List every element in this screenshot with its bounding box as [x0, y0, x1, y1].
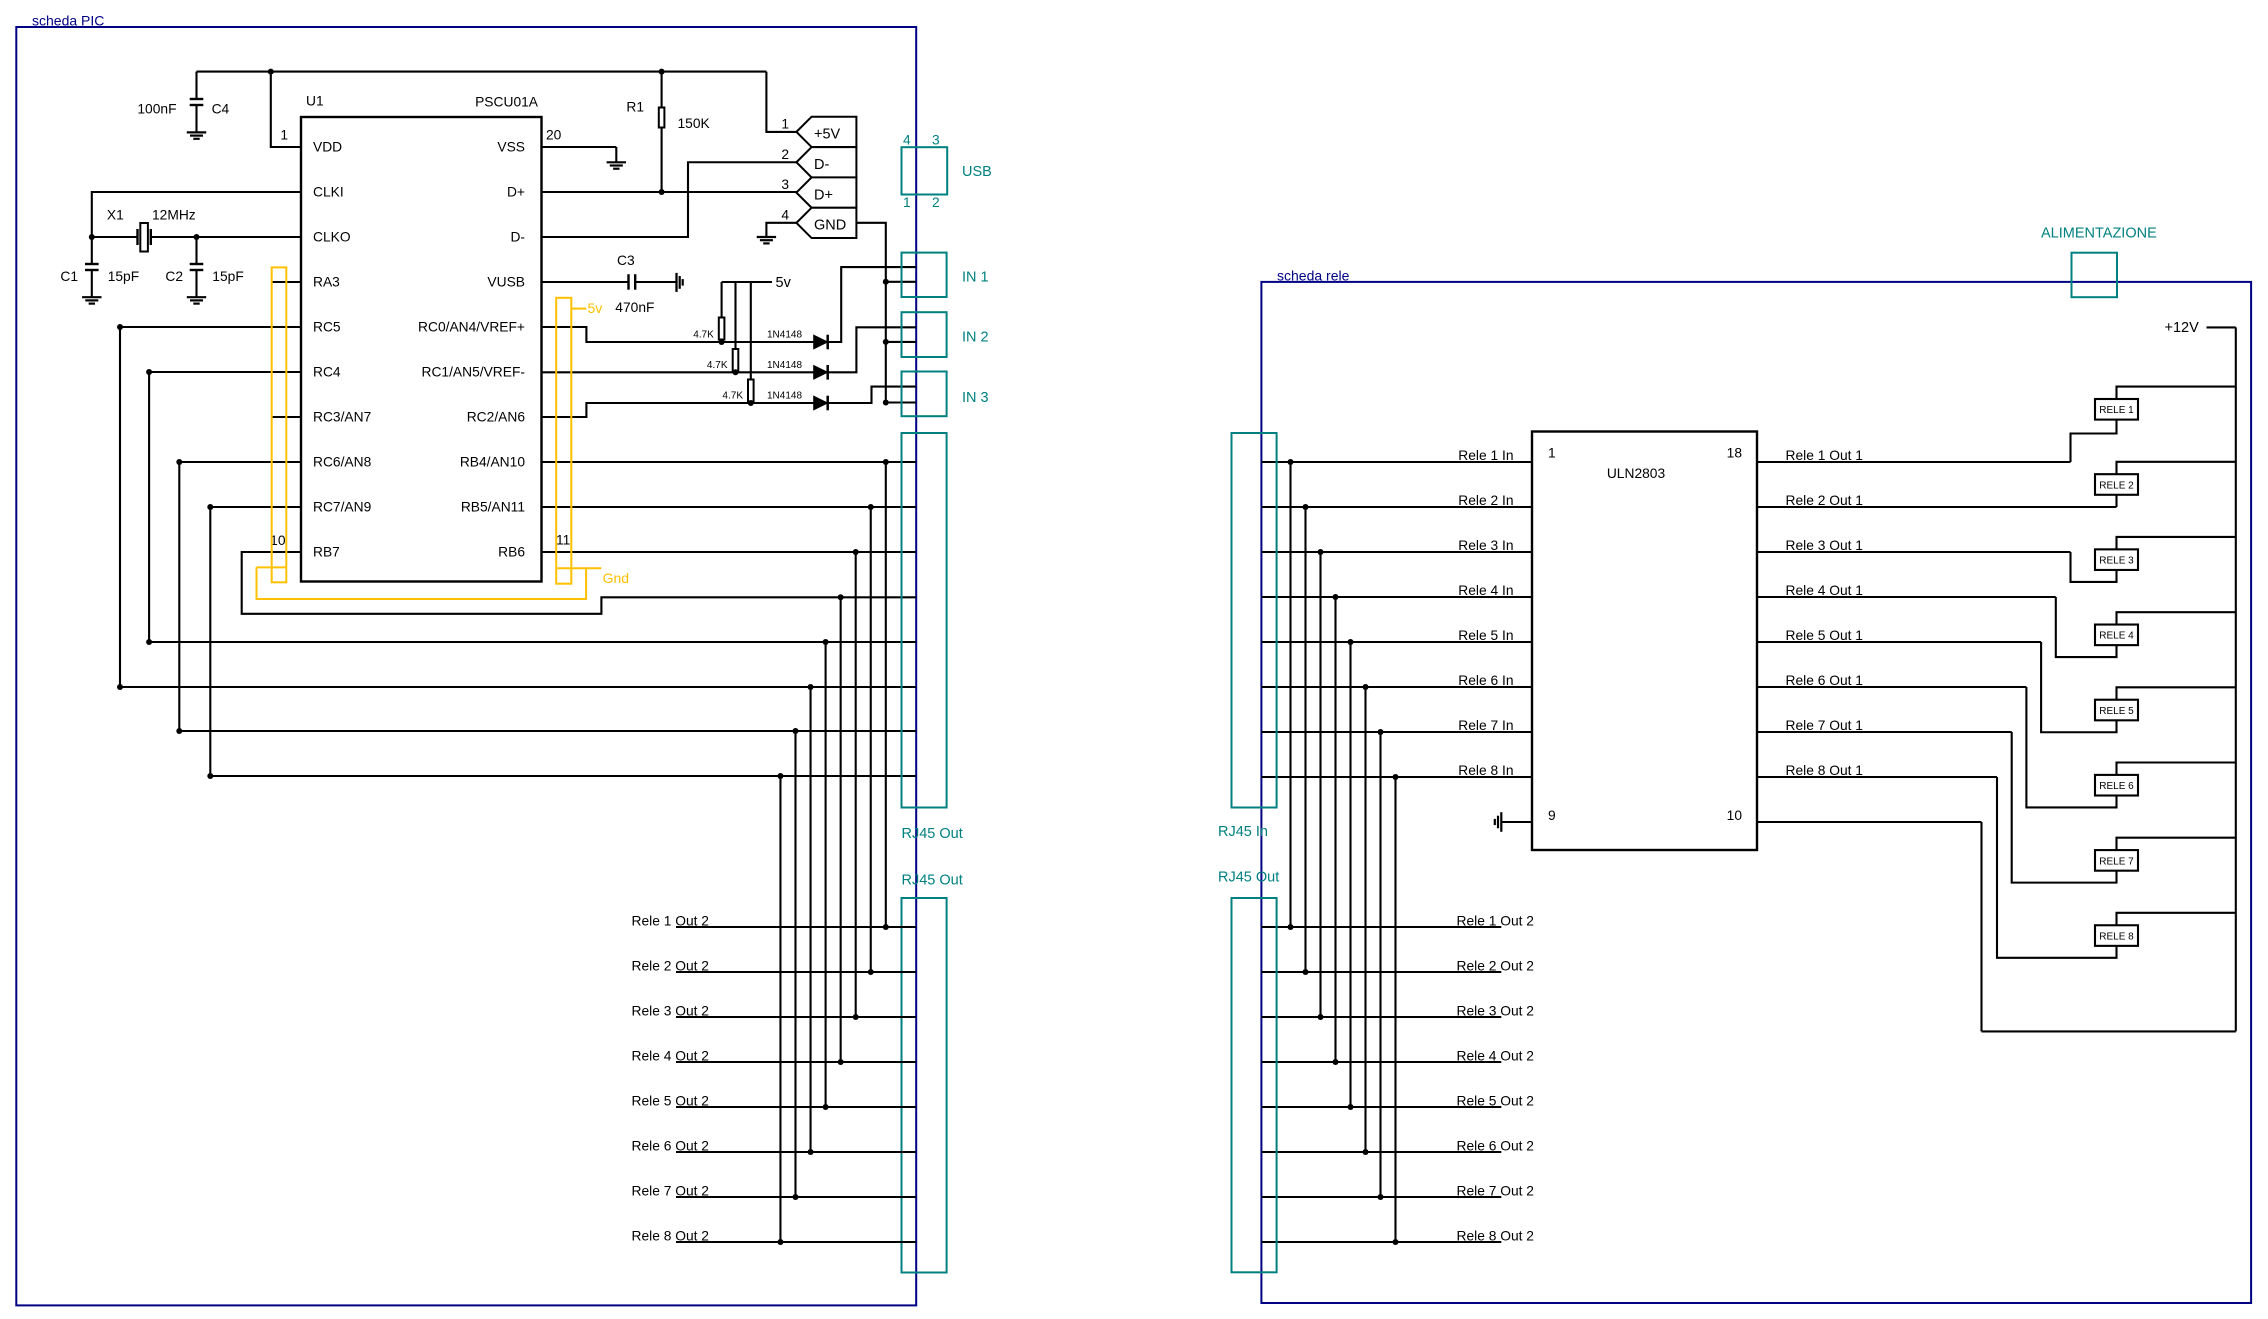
wire Rele 7 In [1261, 731, 1532, 733]
svg-text:1: 1 [280, 128, 288, 143]
wire Rele 8 In [1261, 776, 1532, 778]
IC ULN2803 body [1532, 432, 1757, 851]
svg-text:USB: USB [962, 164, 992, 180]
wire RB4 [542, 461, 917, 463]
ground ULN pin9 [1500, 812, 1502, 832]
wire pin10 riser [1980, 822, 1982, 1031]
wire Rele 6 Out 2 (left) [676, 1151, 916, 1153]
svg-text:RELE 1: RELE 1 [2099, 405, 2134, 416]
resistor 4.7K #3 [750, 282, 752, 380]
svg-text:1: 1 [1548, 446, 1556, 461]
svg-text:Rele 1 Out 2: Rele 1 Out 2 [1457, 914, 1534, 929]
svg-text:ALIMENTAZIONE: ALIMENTAZIONE [2041, 226, 2157, 242]
wire Rele 8 Out 1 [1757, 776, 1997, 778]
svg-text:R1: R1 [626, 100, 644, 115]
wire Rele 2 Out 2 (left) [676, 971, 916, 973]
net RC7 [207, 504, 213, 510]
wire drop net 8 to Rele 8 Out 2 [777, 773, 783, 779]
relay RELE 7 [2095, 850, 2138, 871]
junction GND IN1 [883, 279, 889, 285]
wire drop Rele 6 (right sheet) [1364, 687, 1366, 1152]
wire drop net 2 to Rele 2 Out 2 [868, 504, 874, 510]
wire RELE 1 coil to +12V [2117, 387, 2236, 399]
svg-text:Rele 3 Out 2: Rele 3 Out 2 [632, 1004, 709, 1019]
connector RJ45 Out lower [902, 898, 947, 1273]
svg-text:RB7: RB7 [313, 545, 340, 560]
svg-text:12MHz: 12MHz [152, 208, 196, 223]
svg-text:Rele 4 Out 1: Rele 4 Out 1 [1786, 583, 1863, 598]
relay RELE 8 [2095, 925, 2138, 946]
wire ULN pin 9 [1502, 821, 1533, 823]
wire VUSB [542, 281, 629, 283]
svg-text:RC3/AN7: RC3/AN7 [313, 410, 371, 425]
svg-text:RC2/AN6: RC2/AN6 [467, 410, 526, 425]
svg-text:C2: C2 [165, 269, 183, 284]
wire RELE 6 to out row [2026, 687, 2116, 807]
svg-text:Rele 7 Out 2: Rele 7 Out 2 [632, 1184, 709, 1199]
net RC2 to diode3 [542, 403, 814, 417]
wire drop Rele 8 (right sheet) [1394, 777, 1396, 1242]
svg-text:RB4/AN10: RB4/AN10 [460, 455, 526, 470]
wire RELE 2 to out row [2115, 495, 2117, 507]
wire Rele 8 Out 2 (left) [676, 1241, 916, 1243]
svg-text:RJ45 Out: RJ45 Out [902, 873, 963, 889]
svg-text:4.7K: 4.7K [693, 330, 714, 341]
relay RELE 2 [2095, 474, 2138, 495]
crystal X1 [136, 229, 138, 245]
wire Rele 5 Out 2 (left) [676, 1106, 916, 1108]
wire Rele 2 In [1261, 506, 1532, 508]
wire ULN pin 10 [1757, 821, 1982, 823]
svg-text:Rele 3 Out 2: Rele 3 Out 2 [1457, 1004, 1534, 1019]
svg-text:Rele 7 In: Rele 7 In [1458, 718, 1513, 733]
wire flag2 D- [542, 162, 797, 237]
svg-text:Rele 5 Out 1: Rele 5 Out 1 [1786, 628, 1863, 643]
svg-text:RELE 3: RELE 3 [2099, 556, 2134, 567]
svg-text:Rele 2 Out 2: Rele 2 Out 2 [1457, 959, 1534, 974]
svg-text:D-: D- [814, 157, 829, 173]
svg-text:15pF: 15pF [212, 269, 243, 284]
svg-text:Rele 5 In: Rele 5 In [1458, 628, 1513, 643]
wire Rele 3 Out 1 [1757, 551, 2071, 553]
wire IN2 pin2 [886, 341, 916, 343]
svg-text:15pF: 15pF [108, 269, 139, 284]
svg-text:RJ45 In: RJ45 In [1218, 824, 1268, 840]
relay RELE 4 [2095, 625, 2138, 646]
wire Rele 4 In [1261, 596, 1532, 598]
wire Rele 5 Out 2 (right) [1261, 1106, 1501, 1108]
yellow 5v stub [571, 308, 586, 310]
relay RELE 5 [2095, 700, 2138, 721]
svg-text:Rele 4 In: Rele 4 In [1458, 583, 1513, 598]
connector USB [902, 147, 948, 194]
junction X1 right [194, 234, 200, 240]
relay RELE 1 [2095, 399, 2138, 420]
wire drop Rele 3 (right sheet) [1319, 552, 1321, 1017]
wire RELE 7 coil to +12V [2117, 838, 2236, 850]
svg-text:D+: D+ [507, 185, 525, 200]
svg-text:Rele 5 Out 2: Rele 5 Out 2 [1457, 1094, 1534, 1109]
junction R-D row1 [719, 339, 725, 345]
junction R1 bottom on D+ [659, 189, 665, 195]
wire RB6 [542, 551, 917, 553]
connector RJ45 Out upper [902, 433, 947, 808]
svg-text:IN 2: IN 2 [962, 330, 989, 346]
svg-text:Rele 4 Out 2: Rele 4 Out 2 [1457, 1049, 1534, 1064]
wire Rele 1 Out 2 (right) [1261, 926, 1501, 928]
svg-text:C3: C3 [617, 253, 635, 268]
relay RELE 6 [2095, 775, 2138, 796]
svg-text:GND: GND [814, 218, 846, 234]
ground stub C3 right [675, 273, 677, 292]
junction Rele 3 In drop [1318, 549, 1324, 555]
resistor R1 [661, 72, 663, 108]
svg-text:IN 3: IN 3 [962, 390, 989, 406]
connector RJ45 Out (right) [1232, 898, 1277, 1272]
svg-text:1: 1 [903, 195, 911, 210]
wire RELE 2 coil to +12V [2117, 462, 2236, 474]
svg-text:4.7K: 4.7K [722, 391, 743, 402]
wire CLKI [92, 192, 301, 237]
wire drop net 3 to Rele 3 Out 2 [853, 549, 859, 555]
wire CLKO [197, 236, 302, 238]
ground GND flag [757, 236, 776, 238]
junction R1 top [659, 69, 665, 75]
svg-text:150K: 150K [678, 116, 711, 131]
wire Rele 4 Out 2 (left) [676, 1061, 916, 1063]
svg-text:Rele 3 Out 1: Rele 3 Out 1 [1786, 538, 1863, 553]
junction X1 left [89, 234, 95, 240]
svg-text:Rele 8 Out 2: Rele 8 Out 2 [1457, 1229, 1534, 1244]
svg-text:Rele 7 Out 2: Rele 7 Out 2 [1457, 1184, 1534, 1199]
svg-text:RC7/AN9: RC7/AN9 [313, 500, 372, 515]
net RC4 [146, 369, 152, 375]
wire Rele 6 Out 1 [1757, 686, 2026, 688]
svg-text:IN 1: IN 1 [962, 270, 989, 286]
wire RA3 stub [272, 281, 301, 283]
net RC6 [176, 459, 182, 465]
svg-text:1N4148: 1N4148 [767, 391, 802, 402]
svg-text:RELE 2: RELE 2 [2099, 480, 2134, 491]
wire RELE 8 coil to +12V [2117, 913, 2236, 925]
capacitor C2 [195, 237, 197, 263]
wire drop net 7 to Rele 7 Out 2 [793, 728, 799, 734]
svg-text:RC6/AN8: RC6/AN8 [313, 455, 372, 470]
svg-text:Gnd: Gnd [603, 570, 629, 586]
connector IN 2 [902, 312, 947, 357]
svg-text:Rele 7 Out 1: Rele 7 Out 1 [1786, 718, 1863, 733]
svg-text:RELE 6: RELE 6 [2099, 781, 2134, 792]
junction R-D row3 [748, 400, 754, 406]
diode D3 1N4148 [814, 396, 828, 410]
wire diode1 out [828, 267, 916, 342]
wire drop Rele 2 (right sheet) [1304, 507, 1306, 972]
sheet scheda rele border [1261, 282, 2251, 1303]
svg-text:18: 18 [1727, 446, 1743, 461]
junction R-D row2 [733, 369, 739, 375]
svg-text:470nF: 470nF [615, 300, 654, 315]
svg-text:Rele 4 Out 2: Rele 4 Out 2 [632, 1049, 709, 1064]
junction Rele 2 In drop [1303, 504, 1309, 510]
wire diode3 out [828, 387, 916, 403]
svg-text:CLKI: CLKI [313, 185, 344, 200]
wire +5V top rail [197, 71, 767, 73]
wire RELE 3 to out row [2071, 552, 2117, 582]
svg-text:Rele 8 In: Rele 8 In [1458, 763, 1513, 778]
svg-text:PSCU01A: PSCU01A [475, 95, 539, 110]
wire RELE 5 coil to +12V [2117, 687, 2236, 699]
svg-text:Rele 1 Out 2: Rele 1 Out 2 [632, 914, 709, 929]
relay RELE 3 [2095, 549, 2138, 570]
capacitor C3 [627, 274, 629, 290]
svg-text:D-: D- [510, 230, 525, 245]
svg-text:100nF: 100nF [137, 102, 176, 117]
wire flag4 GND left [766, 223, 796, 237]
wire Rele 2 Out 1 [1757, 506, 2117, 508]
connector ALIMENTAZIONE [2072, 253, 2118, 298]
wire Rele 6 In [1261, 686, 1532, 688]
resistor 4.7K #2 [734, 282, 736, 349]
junction GND IN2 [883, 339, 889, 345]
svg-text:9: 9 [1548, 808, 1556, 823]
resistor 4.7K #1 [721, 282, 723, 318]
svg-text:20: 20 [546, 128, 562, 143]
wire RELE 6 coil to +12V [2117, 763, 2236, 775]
capacitor C4 [195, 72, 197, 98]
wire RELE 4 coil to +12V [2117, 612, 2236, 624]
wire Rele 4 Out 1 [1757, 596, 2056, 598]
junction Rele 6 In drop [1363, 684, 1369, 690]
svg-text:RC1/AN5/VREF-: RC1/AN5/VREF- [422, 365, 526, 380]
svg-text:Rele 2 In: Rele 2 In [1458, 493, 1513, 508]
svg-text:VDD: VDD [313, 140, 342, 155]
svg-text:10: 10 [1727, 808, 1743, 823]
wire Rele 7 Out 1 [1757, 731, 2012, 733]
highlight connector right (yellow) [556, 298, 571, 584]
svg-text:Rele 6 Out 1: Rele 6 Out 1 [1786, 673, 1863, 688]
svg-text:VSS: VSS [497, 140, 525, 155]
wire flag1 +5V [766, 72, 796, 132]
wire X1 right [151, 236, 197, 238]
wire drop Rele 5 (right sheet) [1349, 642, 1351, 1107]
wire VSS to ground [542, 146, 617, 148]
connector IN 1 [902, 253, 947, 297]
junction Rele 8 In drop [1393, 774, 1399, 780]
svg-text:U1: U1 [306, 94, 324, 109]
wire +12V rail [2235, 327, 2237, 1031]
IC U1 PSCU01A body [301, 117, 542, 582]
wire RELE 5 to out row [2041, 642, 2116, 732]
wire Rele 5 Out 1 [1757, 641, 2041, 643]
svg-text:1N4148: 1N4148 [767, 330, 802, 341]
diode D2 1N4148 [814, 366, 828, 380]
wire Rele 7 Out 2 (right) [1261, 1196, 1501, 1198]
connector IN 3 [902, 372, 947, 417]
wire Rele 8 Out 2 (right) [1261, 1241, 1501, 1243]
svg-text:2: 2 [932, 195, 940, 210]
svg-text:RA3: RA3 [313, 275, 340, 290]
svg-text:RELE 7: RELE 7 [2099, 856, 2134, 867]
svg-text:RELE 8: RELE 8 [2099, 931, 2134, 942]
svg-text:RJ45 Out: RJ45 Out [1218, 870, 1279, 886]
wire Rele 3 In [1261, 551, 1532, 553]
svg-text:3: 3 [932, 133, 940, 148]
wire drop Rele 7 (right sheet) [1379, 732, 1381, 1197]
net GND to IN pins [856, 223, 916, 403]
USB pin flags +5V D- D+ GND [796, 117, 856, 147]
junction Rele 7 In drop [1378, 729, 1384, 735]
svg-text:ULN2803: ULN2803 [1607, 466, 1666, 481]
svg-text:Rele 6 Out 2: Rele 6 Out 2 [1457, 1139, 1534, 1154]
svg-text:5v: 5v [776, 275, 792, 291]
net RC5 [117, 324, 123, 330]
svg-text:C1: C1 [60, 269, 78, 284]
connector RJ45 In (right) [1232, 433, 1277, 808]
wire Rele 1 Out 1 [1757, 461, 2071, 463]
wire drop net 4 to Rele 4 Out 2 [838, 594, 844, 600]
svg-text:RC4: RC4 [313, 365, 341, 380]
ground VSS [607, 161, 626, 163]
svg-text:RB5/AN11: RB5/AN11 [461, 500, 525, 515]
junction Rele 1 In drop [1288, 459, 1294, 465]
svg-text:11: 11 [556, 533, 570, 548]
svg-text:Rele 8 Out 1: Rele 8 Out 1 [1786, 763, 1863, 778]
svg-text:Rele 1 In: Rele 1 In [1458, 448, 1513, 463]
wire RELE 1 to out row [2071, 420, 2117, 462]
svg-text:2: 2 [781, 147, 789, 162]
wire Rele 7 Out 2 (left) [676, 1196, 916, 1198]
svg-text:1: 1 [781, 117, 789, 132]
svg-text:Rele 6 In: Rele 6 In [1458, 673, 1513, 688]
svg-text:RELE 5: RELE 5 [2099, 706, 2134, 717]
wire drop Rele 1 (right sheet) [1289, 462, 1291, 927]
junction Rele 5 In drop [1348, 639, 1354, 645]
junction GND IN3 [883, 400, 889, 406]
wire X1 left [92, 236, 138, 238]
wire Rele 1 In [1261, 461, 1532, 463]
capacitor C1 [91, 237, 93, 263]
svg-text:RB6: RB6 [498, 545, 525, 560]
wire diode2 out [828, 327, 916, 372]
wire Rele 1 Out 2 (left) [676, 926, 916, 928]
highlight connector left (yellow) [272, 267, 287, 582]
wire +12V bottom [1982, 1030, 2236, 1032]
svg-text:1N4148: 1N4148 [767, 360, 802, 371]
wire Rele 3 Out 2 (left) [676, 1016, 916, 1018]
svg-text:Rele 8 Out 2: Rele 8 Out 2 [632, 1229, 709, 1244]
svg-text:X1: X1 [107, 208, 124, 223]
svg-text:Rele 3 In: Rele 3 In [1458, 538, 1513, 553]
svg-text:+12V: +12V [2165, 320, 2200, 336]
diode D1 1N4148 [814, 335, 828, 349]
wire Rele 6 Out 2 (right) [1261, 1151, 1501, 1153]
wire drop Rele 4 (right sheet) [1334, 597, 1336, 1062]
svg-text:RELE 4: RELE 4 [2099, 631, 2134, 642]
svg-text:Rele 5 Out 2: Rele 5 Out 2 [632, 1094, 709, 1109]
wire drop net 6 to Rele 6 Out 2 [808, 684, 814, 690]
wire RELE 4 to out row [2056, 597, 2117, 657]
svg-text:VUSB: VUSB [487, 275, 525, 290]
net RC1 to diode2 [542, 371, 814, 373]
wire drop net 5 to Rele 5 Out 2 [823, 639, 829, 645]
yellow Gnd net [257, 566, 287, 568]
svg-text:RC5: RC5 [313, 320, 341, 335]
junction Rele 4 In drop [1333, 594, 1339, 600]
wire flag3 D+ [542, 191, 797, 193]
wire RC3 stub [272, 416, 301, 418]
svg-text:C4: C4 [212, 102, 230, 117]
svg-text:5v: 5v [588, 300, 603, 316]
net RC0 to diode1 [542, 327, 814, 342]
svg-text:Rele 2 Out 2: Rele 2 Out 2 [632, 959, 709, 974]
wire drop net 1 to Rele 1 Out 2 [883, 459, 889, 465]
svg-text:CLKO: CLKO [313, 230, 351, 245]
svg-text:Rele 1 Out 1: Rele 1 Out 1 [1786, 448, 1863, 463]
svg-text:Rele 2 Out 1: Rele 2 Out 1 [1786, 493, 1863, 508]
svg-text:RJ45 Out: RJ45 Out [902, 826, 963, 842]
wire 5v rail [722, 281, 772, 283]
svg-text:3: 3 [781, 177, 789, 192]
sheet scheda PIC border [16, 27, 916, 1305]
svg-text:4: 4 [781, 207, 789, 222]
net RB7 [242, 552, 916, 614]
junction VDD drop [268, 69, 274, 75]
wire Rele 2 Out 2 (right) [1261, 971, 1501, 973]
svg-text:RC0/AN4/VREF+: RC0/AN4/VREF+ [418, 320, 525, 335]
wire Rele 4 Out 2 (right) [1261, 1061, 1501, 1063]
svg-text:+5V: +5V [814, 127, 841, 143]
wire RELE 8 to out row [1997, 777, 2117, 958]
svg-text:D+: D+ [814, 187, 833, 203]
wire RB5 [542, 506, 917, 508]
wire VDD [271, 72, 301, 147]
wire RELE 7 to out row [2012, 732, 2117, 883]
wire Rele 3 Out 2 (right) [1261, 1016, 1501, 1018]
svg-text:4.7K: 4.7K [707, 360, 728, 371]
wire Rele 5 In [1261, 641, 1532, 643]
wire IN1 pin2 [886, 281, 916, 283]
wire RELE 3 coil to +12V [2117, 537, 2236, 549]
svg-text:Rele 6 Out 2: Rele 6 Out 2 [632, 1139, 709, 1154]
wire +12V stub [2207, 326, 2236, 328]
svg-text:4: 4 [903, 133, 911, 148]
